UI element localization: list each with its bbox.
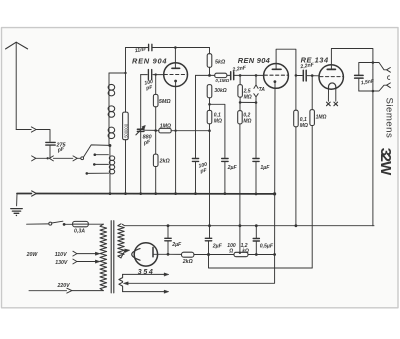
wire divider bottom to HT bus bbox=[209, 131, 211, 226]
resistor 2kΩ cathode bbox=[153, 131, 170, 194]
svg-text:kΩ: kΩ bbox=[242, 249, 249, 255]
node output top bbox=[372, 61, 375, 64]
svg-text:2µF: 2µF bbox=[227, 165, 238, 171]
tube U2 REN904 bbox=[264, 49, 296, 88]
node grid 2 / TA bbox=[255, 74, 258, 77]
svg-text:MΩ: MΩ bbox=[244, 94, 252, 100]
junction coil / switch blade bbox=[108, 144, 111, 147]
svg-text:5kΩ: 5kΩ bbox=[215, 60, 226, 66]
wire screen decoupling to 2uF bbox=[210, 104, 225, 157]
resistor 2kΩ filter bbox=[168, 252, 234, 265]
svg-text:MΩ: MΩ bbox=[243, 119, 251, 125]
svg-text:500000: 500000 bbox=[123, 123, 128, 138]
switch pivot and blade to coil bbox=[81, 145, 110, 160]
tapped resistor 100Ω / 1,2kΩ bbox=[227, 226, 274, 257]
node anode divider bbox=[208, 74, 211, 77]
HT secondary winding bbox=[118, 224, 124, 258]
power transformer primary bbox=[100, 224, 107, 290]
tapped coil bottom section bbox=[109, 146, 114, 194]
capacitor 2µF filter first bbox=[165, 226, 182, 255]
node grid / 5M bbox=[155, 73, 157, 75]
svg-text:32 W: 32 W bbox=[377, 148, 394, 176]
HT bus junction dots bbox=[167, 224, 298, 227]
capacitor 11nF bbox=[134, 44, 152, 54]
wire grid tube 1 bbox=[141, 74, 164, 76]
capacitor 0,5µF bbox=[253, 226, 274, 255]
tap 130V bbox=[55, 259, 100, 266]
speaker curl mark bbox=[387, 76, 389, 80]
speaker terminal lower bbox=[387, 83, 391, 88]
wire TA to grid network bbox=[240, 101, 256, 103]
node anode tube 1 bbox=[174, 46, 177, 49]
tube U1 REN904 bbox=[164, 48, 188, 87]
node screen divider bbox=[208, 103, 211, 106]
bias bus (dark) bbox=[17, 193, 275, 195]
speaker terminal upper bbox=[387, 68, 391, 73]
node 5M bottom bbox=[154, 129, 157, 132]
node grid 2 / 2,5M bbox=[239, 74, 242, 77]
wire anode chain top corner bbox=[209, 48, 211, 54]
svg-text:2µF: 2µF bbox=[212, 244, 223, 250]
svg-text:1µF: 1µF bbox=[260, 165, 270, 171]
node rectifier output bbox=[167, 253, 170, 256]
svg-text:REN 904: REN 904 bbox=[132, 57, 167, 66]
mains lead upper bbox=[27, 223, 49, 225]
capacitor 1,5nF across output bbox=[355, 63, 376, 92]
svg-text:130V: 130V bbox=[55, 260, 68, 266]
bias bus junction dots bbox=[109, 192, 277, 195]
wire feedback vertical bbox=[125, 48, 127, 194]
node bias network right bbox=[273, 253, 276, 256]
capacitor 2,2nF coupling bbox=[231, 65, 264, 80]
capacitor 1µF bbox=[253, 103, 270, 194]
band switch line with plug connectors bbox=[32, 156, 81, 161]
wire coil top to feedback line bbox=[109, 72, 126, 74]
heater winding bbox=[119, 274, 123, 291]
resistor 30kΩ bbox=[207, 85, 227, 111]
wire 880pF to cathode network bbox=[144, 129, 156, 131]
node cathode crossing bbox=[174, 130, 176, 132]
svg-text:0,1MΩ: 0,1MΩ bbox=[215, 78, 229, 83]
svg-text:110V: 110V bbox=[55, 252, 67, 258]
svg-text:354: 354 bbox=[138, 269, 153, 276]
wire output upper to speaker bbox=[373, 63, 387, 70]
capacitor 2,2nF to RE134 bbox=[296, 62, 319, 81]
resistor 1MΩ grid leak bbox=[156, 124, 210, 133]
node 1MΩ top bbox=[311, 74, 314, 77]
svg-text:220V: 220V bbox=[57, 283, 71, 289]
pickup terminals TA bbox=[254, 75, 265, 102]
filament terminal x marks RE134 bbox=[327, 102, 338, 106]
node coil top bbox=[124, 72, 126, 74]
svg-text:Siemens: Siemens bbox=[384, 98, 395, 139]
connector chevron on bias bus bbox=[32, 191, 37, 196]
ground lead bbox=[16, 194, 18, 206]
mains lead lower 220V bbox=[29, 283, 103, 293]
resistor 0,1MΩ coupling bbox=[210, 73, 231, 83]
wire antenna to coupling cap bbox=[16, 130, 50, 142]
ground bbox=[11, 209, 22, 216]
svg-text:Ω: Ω bbox=[228, 249, 233, 255]
capacitor 100pF anode decoupling bbox=[192, 75, 209, 193]
wire bias return lower bbox=[209, 255, 313, 269]
transformer core bbox=[111, 221, 114, 293]
HT winding lead arrow to rectifier filament bbox=[121, 249, 130, 258]
svg-text:1MΩ: 1MΩ bbox=[160, 124, 171, 130]
resistor 0,1MΩ divider lower bbox=[207, 110, 222, 130]
resistor 5MΩ bbox=[153, 75, 171, 131]
capacitor 275pF bbox=[46, 142, 67, 154]
resistor 2,5MΩ grid bbox=[238, 75, 252, 102]
svg-text:0,3A: 0,3A bbox=[74, 228, 85, 234]
svg-text:5MΩ: 5MΩ bbox=[159, 99, 171, 105]
resistor 500000 grid leak bbox=[123, 112, 129, 140]
antenna bbox=[6, 42, 28, 129]
node 0,2M top bbox=[239, 101, 242, 104]
resistor 5kΩ anode load bbox=[207, 54, 226, 76]
heater lead upper with arrow bbox=[123, 273, 169, 276]
wire cap to band switch bbox=[49, 146, 51, 159]
resistor 0,2MΩ bbox=[238, 102, 252, 225]
svg-text:TA: TA bbox=[259, 87, 266, 93]
antenna coil L1 bbox=[108, 73, 115, 145]
svg-text:2kΩ: 2kΩ bbox=[159, 158, 171, 164]
node filter bbox=[207, 253, 210, 256]
node TA bottom bbox=[255, 101, 258, 104]
wire output lower to speaker bbox=[359, 85, 387, 91]
connector chevron on antenna lead bbox=[31, 127, 36, 132]
fuse 0,3A bbox=[64, 221, 103, 234]
svg-text:1MΩ: 1MΩ bbox=[316, 114, 327, 120]
capacitor 2µF filter second bbox=[205, 226, 222, 255]
node 0,5µF bottom bbox=[255, 253, 258, 256]
wire cathode tube 2 down bbox=[274, 88, 276, 254]
node output bottom bbox=[372, 90, 375, 93]
capacitor 2µF screen bypass bbox=[222, 159, 238, 194]
svg-text:30kΩ: 30kΩ bbox=[214, 88, 226, 94]
HT+ bus bbox=[122, 224, 374, 225]
tube U3 RE134 bbox=[319, 49, 373, 102]
heater center tap wire with arrow bbox=[124, 255, 275, 285]
resistor 1MΩ RE134 grid leak bbox=[310, 76, 327, 268]
svg-text:MΩ: MΩ bbox=[300, 123, 308, 129]
svg-text:0,5µF: 0,5µF bbox=[260, 244, 274, 250]
top feedback bus wire bbox=[126, 47, 210, 49]
svg-text:2µF: 2µF bbox=[171, 242, 182, 248]
rectifier tube 354 bbox=[132, 243, 168, 276]
mains switch bbox=[49, 221, 66, 226]
capacitor 100pF grid bbox=[144, 70, 154, 92]
resistor 0,1MΩ RE134 grid bbox=[294, 75, 308, 225]
wire cathode tube 1 down bbox=[175, 86, 177, 193]
coil tap contacts bbox=[86, 153, 109, 174]
svg-text:MΩ: MΩ bbox=[214, 118, 222, 124]
node divider bottom bbox=[208, 129, 211, 132]
svg-text:20W: 20W bbox=[26, 252, 39, 258]
wire output return down bbox=[372, 63, 374, 226]
svg-text:REN 904: REN 904 bbox=[238, 56, 270, 65]
variable capacitor 880pF bbox=[136, 75, 152, 194]
heater lead lower with arrow bbox=[123, 290, 169, 293]
tap 110V bbox=[55, 251, 100, 258]
node RE134 grid wire left bbox=[295, 74, 298, 77]
svg-text:2kΩ: 2kΩ bbox=[182, 259, 193, 265]
